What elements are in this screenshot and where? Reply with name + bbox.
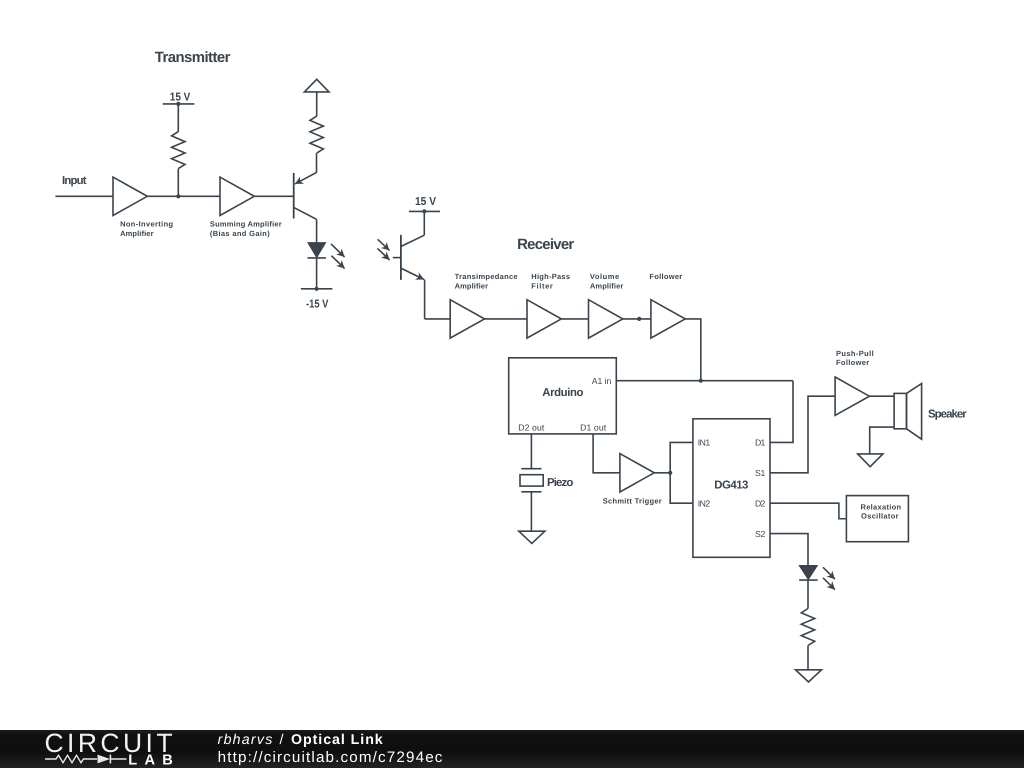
svg-text:Follower: Follower (649, 272, 682, 281)
label Push-Pull Follower (836, 349, 874, 367)
svg-text:Receiver: Receiver (517, 237, 574, 253)
svg-text:Push-Pull: Push-Pull (836, 349, 874, 358)
footer title rbharvs / Optical Link (218, 732, 383, 748)
wire follower output down to A1 line (685, 319, 701, 381)
ground (piezo) (519, 531, 545, 543)
wire Schmitt output to junction (654, 472, 670, 474)
speaker SP1 (894, 384, 922, 440)
svg-text:Volume: Volume (590, 272, 619, 281)
wire D1 out to Schmitt trigger (593, 434, 620, 473)
wire junction to IN1 (670, 442, 693, 472)
piezo PZ1 (520, 469, 543, 492)
svg-text:Speaker: Speaker (928, 409, 967, 421)
power supply +15V rail (receiver) (409, 209, 440, 213)
wire piezo to ground (530, 492, 532, 531)
svg-text:Relaxation: Relaxation (861, 502, 902, 511)
svg-text:Amplifier: Amplifier (120, 229, 153, 238)
op-amp A3 Transimpedance Amplifier (450, 300, 484, 338)
wire A1 in line (616, 380, 793, 382)
wire supply arrow to resistor R2 (316, 92, 318, 116)
svg-text:Follower: Follower (836, 358, 869, 367)
power supply -15V rail (301, 287, 333, 291)
wire R2 to Q1 emitter (316, 153, 318, 173)
light rays incident on Q2 (377, 239, 389, 260)
svg-text:D1 out: D1 out (580, 423, 607, 433)
svg-text:Optical Link: Optical Link (291, 732, 383, 748)
wire R1 to bias node (177, 169, 179, 197)
svg-text:15 V: 15 V (415, 196, 436, 208)
wire speaker to ground (870, 427, 894, 454)
svg-text:Oscillator: Oscillator (861, 511, 899, 520)
wire Q1 collector to LED D1 (316, 219, 318, 243)
svg-text:Summing Amplifier: Summing Amplifier (210, 220, 282, 229)
svg-text:IN2: IN2 (698, 498, 711, 508)
svg-text:LAB: LAB (128, 752, 173, 768)
svg-text:/: / (280, 732, 284, 748)
label High-Pass Filter (531, 272, 570, 290)
svg-text:15 V: 15 V (170, 91, 191, 103)
wire Q2 emitter down (424, 280, 426, 319)
svg-text:Filter: Filter (531, 281, 553, 290)
svg-text:Transimpedance: Transimpedance (455, 272, 518, 281)
LED D3 (indicator) (799, 566, 818, 580)
wire rail to resistor R1 (177, 104, 179, 132)
wire A2 output to Q1 base (254, 195, 293, 197)
wire R3 to ground (807, 646, 809, 670)
wire input to amplifier A1 (55, 195, 113, 197)
svg-text:Transmitter: Transmitter (155, 50, 231, 66)
label Relaxation Oscillator (861, 502, 902, 520)
svg-text:Non-Inverting: Non-Inverting (120, 220, 173, 229)
IC U1 Arduino box (509, 358, 617, 434)
svg-text:-15 V: -15 V (306, 298, 329, 310)
light rays emitted by D1 (331, 244, 345, 269)
wire A8 output to speaker (869, 395, 894, 397)
op-amp A5 Volume Amplifier (589, 300, 623, 338)
label Non-Inverting Amplifier (120, 220, 173, 238)
wire A5 to A6 (623, 318, 651, 320)
transistor Q1 PNP (294, 173, 317, 220)
svg-text:Piezo: Piezo (547, 477, 573, 489)
op-amp A7 Schmitt Trigger (620, 454, 654, 492)
resistor R3 (801, 609, 814, 646)
LED D1 (emitter diode) (308, 243, 326, 258)
svg-text:(Bias and Gain): (Bias and Gain) (210, 229, 270, 238)
svg-text:A1 in: A1 in (592, 376, 612, 386)
phototransistor Q2 (393, 235, 425, 280)
label Transimpedance Amplifier (455, 272, 518, 290)
svg-text:D1: D1 (755, 438, 766, 448)
label Summing Amplifier (Bias and Gain) (210, 220, 282, 238)
wire A3 to A4 (485, 318, 528, 320)
wire D2 pin to relaxation oscillator (770, 503, 846, 519)
ground (LED branch) (796, 670, 822, 682)
svg-text:D2 out: D2 out (518, 423, 545, 433)
wire S1 to push-pull follower (770, 396, 835, 473)
op-amp A4 High-Pass Filter (527, 300, 561, 338)
svg-text:S1: S1 (755, 468, 766, 478)
wire A4 to A5 (561, 318, 588, 320)
op-amp A2 Summing Amplifier (220, 177, 254, 215)
op-amp A1 Non-Inverting Amplifier (113, 177, 147, 215)
label Volume Amplifier (590, 272, 623, 290)
resistor R2 (310, 116, 323, 153)
svg-text:DG413: DG413 (714, 480, 748, 492)
wire D2 out to piezo (530, 434, 532, 469)
power supply arrow +V (transmitter top) (304, 79, 329, 92)
logo diode glyph (98, 755, 127, 764)
junction dot (schmitt out) (668, 471, 672, 475)
svg-text:IN1: IN1 (698, 438, 711, 448)
junction dot (volume out) (637, 317, 641, 321)
power supply +15V rail (transmitter) (163, 102, 195, 106)
op-amp A6 Follower (651, 300, 685, 338)
junction dot (bias node) (176, 194, 180, 198)
svg-text:Amplifier: Amplifier (455, 281, 488, 290)
wire A1 output to A2 input (147, 195, 220, 197)
svg-text:Schmitt Trigger: Schmitt Trigger (603, 496, 662, 505)
ground (speaker) (858, 454, 883, 467)
wire junction to IN2 (670, 473, 693, 503)
IC U2 DG413 box (693, 419, 770, 558)
svg-text:S2: S2 (755, 529, 766, 539)
light rays emitted by D3 (823, 567, 835, 589)
wire rail to Q2 collector (423, 211, 425, 235)
svg-text:Arduino: Arduino (542, 387, 583, 399)
svg-text:Input: Input (62, 175, 87, 187)
svg-text:D2: D2 (755, 498, 766, 508)
op-amp A8 Push-Pull Follower (835, 377, 869, 415)
svg-text:Amplifier: Amplifier (590, 281, 623, 290)
junction dot A1/follower (699, 379, 703, 383)
resistor R1 (172, 132, 185, 169)
wire D3 to resistor R3 (807, 580, 809, 608)
svg-text:http://circuitlab.com/c7294ec: http://circuitlab.com/c7294ec (218, 749, 443, 766)
svg-text:High-Pass: High-Pass (531, 272, 570, 281)
logo resistor glyph (45, 755, 97, 762)
wire S2 pin to LED D3 (770, 534, 808, 566)
wire A1 line down to D1 pin of U2 (770, 381, 793, 443)
footer bar (0, 730, 1024, 768)
block Relaxation Oscillator (846, 496, 908, 542)
wire to transimpedance amplifier (425, 318, 451, 320)
wire D1 to -15V rail (316, 258, 318, 289)
